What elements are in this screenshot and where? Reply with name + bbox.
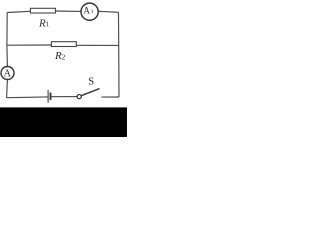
resistor R2 [51,42,76,47]
switch arm [81,89,99,96]
black censor bar [0,107,127,137]
wire battery to switch [52,96,78,98]
battery long plate [47,90,49,103]
wire A1 to top-right corner [98,11,118,12]
svg-text:R: R [38,17,46,29]
wire right vertical [118,12,121,97]
wire middle-right segment [76,44,118,46]
wire bottom-left segment [7,96,48,99]
wire R1 to A1 [56,10,81,12]
svg-text:1: 1 [46,21,50,29]
wire left vertical upper [6,13,9,67]
svg-text:A: A [4,69,12,80]
switch pivot [77,95,81,99]
wire left vertical lower [6,80,9,98]
wire switch to bottom-right corner [102,96,120,98]
svg-text:2: 2 [62,53,66,62]
svg-text:A: A [83,6,90,16]
battery short plate [50,93,52,100]
resistor R1 [30,8,55,13]
svg-text:S: S [88,76,94,87]
wire top-left segment [7,11,30,12]
ammeter A1 [81,3,98,20]
svg-text:1: 1 [91,9,94,15]
ammeter A2 [1,67,14,80]
wire middle-left segment [7,44,52,46]
